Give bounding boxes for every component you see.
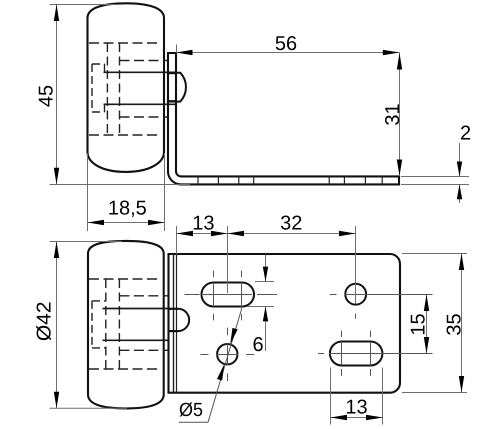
dimension 32: dimension line [228,233,356,235]
dimension 6: extension lines [247,282,274,307]
dimension 18,5: extension lines [88,153,165,231]
axle head hidden rectangle plan (dashed) [92,301,106,348]
svg-text:31: 31 [382,103,404,125]
bracket plate outline (plan view) [169,254,401,393]
bracket hole edges (thick marks) [167,73,177,101]
bottom slot centerlines vertical [342,331,371,377]
svg-text:Ø5: Ø5 [179,400,203,421]
dimension 35: arrowheads [459,254,464,393]
dimension 32: extension line at circle [355,226,357,304]
hidden sleeve lines (dashed) [120,61,169,118]
hole circle 5mm (plan) [217,344,237,364]
tab attach edges (plan, thick) [169,309,179,331]
dimension diameter 42: extension lines [50,242,128,409]
hidden hub outer lines plan (dashed) [89,279,160,369]
dimension 13 top: arrowheads [177,231,228,236]
dimension 15: arrowheads [424,295,429,354]
dimension 18,5: dimension line [88,222,165,224]
dimension 45: extension lines [50,5,191,185]
svg-text:32: 32 [280,213,302,235]
slotted hole bottom-right (plan) [330,342,383,366]
axle visible lines (solid) [104,72,177,104]
dimension 13 bottom: dimension line [331,417,383,419]
dimension 13 top: extension lines [177,226,228,293]
svg-text:Ø42: Ø42 [33,301,55,341]
svg-text:35: 35 [443,313,465,335]
dimension 56: arrowheads [176,50,399,55]
dimension 56: extension tick [176,45,178,54]
slot centerline horizontal [185,294,278,296]
dimension diameter 42: arrowheads [54,242,59,409]
svg-text:56: 56 [275,33,297,55]
bottom slot centerline horizontal + 15-extension [318,353,433,355]
dimension 13 bottom: extension lines [331,368,383,425]
hidden hub flange verticals plan (dashed) [106,279,120,369]
dimension 45: dimension line [56,5,58,185]
bend tangent line 1 (plan) [173,254,175,393]
dimension 35: extension lines [402,254,467,393]
dimension 45: arrowheads [54,5,59,185]
dimension 31: arrowheads [397,53,402,176]
dimension 13 bottom: arrowheads [331,415,383,420]
serration tick marks on horizontal leg [198,176,382,184]
bent tab on bracket (side view) [176,73,186,102]
svg-text:6: 6 [252,334,263,356]
axle visible lines plan (solid) [103,309,169,341]
svg-text:18,5: 18,5 [108,198,147,220]
roller body (plan view outline) [88,241,164,409]
bent tab (plan view) [178,309,189,331]
axle head hidden rectangle (dashed) [92,64,105,112]
circle right centermarks + 15-extension [330,295,433,319]
dimension 18,5: arrowheads [88,220,165,225]
circle 5 centermarks [201,328,255,381]
L-bracket outline (side view) [168,53,399,184]
dimension 6: dimension line with outside arrows [265,255,267,352]
dimension 32: arrowheads [228,231,356,236]
dimension diameter 42: dimension line [56,242,58,409]
svg-text:15: 15 [407,313,429,335]
hidden hub outer lines (dashed) [89,43,160,135]
dimension 35: dimension line [461,254,463,393]
svg-text:13: 13 [192,212,214,234]
dimension diameter 5: arrowheads [217,328,238,381]
slot centerlines vertical (semicircle centers) [214,271,242,321]
roller body (side view outline) [88,3,165,172]
hidden sleeve lines plan (dashed) [119,296,168,351]
svg-text:13: 13 [345,397,367,419]
dimension diameter 5: leader line [208,306,243,422]
bend tangent line 2 (plan) [176,254,178,393]
svg-text:45: 45 [36,85,58,107]
slotted hole top-left (plan) [202,283,255,307]
svg-text:2: 2 [460,123,471,145]
dimension 13 top: dimension line [177,233,228,235]
dimension 15: dimension line [426,295,428,354]
dimension 2: dimension line with outside arrows [459,143,461,203]
dimension 56: dimension line [176,52,399,54]
hole circle right (plan) [345,284,366,305]
dimension 2: extension lines [401,177,469,185]
hidden hub flange verticals (dashed) [107,43,119,135]
dimension diameter 5: shoulder [179,421,208,423]
dimension 31: dimension line [399,53,401,177]
